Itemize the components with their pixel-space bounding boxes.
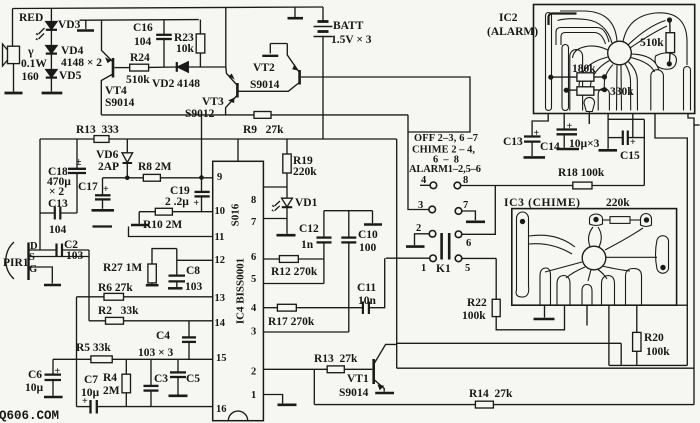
IC3 trace left to die <box>529 235 575 247</box>
resistor 330k in IC2 <box>564 87 607 95</box>
resistor R27 1M <box>146 249 177 286</box>
wire VT1 collector line A <box>397 342 622 344</box>
IC2 die <box>608 41 632 65</box>
svg-text:13: 13 <box>215 293 226 304</box>
capacitor C6 10u <box>44 359 63 397</box>
svg-text:104: 104 <box>49 224 67 236</box>
switch K1 contact 3 <box>429 206 436 213</box>
svg-text:C6: C6 <box>28 369 42 381</box>
IC2 trace down-left pair b <box>590 61 609 89</box>
IC2 left pad strip 2 <box>562 45 569 111</box>
IC2 tube pad bottom left <box>570 50 583 111</box>
IC3 CHIME module box <box>512 209 677 306</box>
resistor 180k in IC2 <box>548 73 607 81</box>
IC2 trace straight down <box>616 65 619 110</box>
svg-text:2: 2 <box>416 223 421 234</box>
resistor R14 27k <box>475 401 493 408</box>
svg-text:R2 33k: R2 33k <box>98 305 139 317</box>
svg-text:+: + <box>55 366 61 377</box>
capacitor C5 <box>169 359 188 396</box>
IC3 trace die to right pad <box>606 256 657 258</box>
battery BATT 1.5Vx3 <box>314 7 333 139</box>
wire R13b to VT1 base <box>344 368 372 370</box>
svg-text:BATT: BATT <box>333 20 364 32</box>
ground stub right of VD3 <box>77 20 94 30</box>
IC2 tube pad bottom right <box>651 70 664 111</box>
IC2 trace down-right a <box>625 64 631 111</box>
ground left of R10 <box>93 212 150 227</box>
wire C19 long vertical <box>201 115 203 212</box>
IC3 left pad strip <box>516 212 529 297</box>
svg-text:γ: γ <box>27 44 34 58</box>
wire IC3 open stub <box>586 305 588 325</box>
svg-text:R13 333: R13 333 <box>76 124 119 136</box>
wire left lower vertical <box>76 297 78 407</box>
svg-text:RED: RED <box>19 12 43 24</box>
wire pin12 row <box>177 259 213 261</box>
wire pin5 row <box>263 283 324 285</box>
svg-text:S9014: S9014 <box>339 387 369 399</box>
resistor R2 33k <box>106 317 124 324</box>
transistor VT2 S9014 <box>238 44 300 92</box>
wire R2 row pin14 <box>89 320 106 322</box>
IC3 bottom tubes <box>540 268 551 305</box>
resistor R8 2M <box>143 174 160 181</box>
wire contact1 row <box>386 257 430 259</box>
wire rail drop to VD2 row <box>225 7 227 67</box>
svg-text:C12: C12 <box>299 223 319 235</box>
svg-text:3: 3 <box>251 327 256 338</box>
wire pin3 row <box>263 331 348 333</box>
svg-text:VD3: VD3 <box>58 19 81 31</box>
svg-text:10µ: 10µ <box>25 382 44 394</box>
svg-text:103 × 3: 103 × 3 <box>138 347 174 359</box>
resistor R4 2M <box>122 359 131 406</box>
wire bottom output row R14 <box>314 404 475 406</box>
svg-text:R4: R4 <box>103 372 117 384</box>
svg-text:160: 160 <box>22 71 40 83</box>
svg-text:220k: 220k <box>293 166 317 178</box>
svg-text:100: 100 <box>359 242 377 254</box>
svg-text:+: + <box>103 184 109 195</box>
resistor R5 33k <box>91 356 112 363</box>
svg-text:VT2: VT2 <box>253 62 275 74</box>
svg-text:C16: C16 <box>133 22 153 34</box>
IC2 left pad strip 1 <box>546 13 552 111</box>
wire R9 row <box>101 114 254 116</box>
diode VD6 2AP <box>122 139 133 178</box>
wire PIR G row to ground <box>29 267 62 285</box>
svg-text:R17 270k: R17 270k <box>268 316 315 328</box>
ground right of bracket <box>364 211 382 225</box>
capacitor C18 470u x2 <box>68 139 86 213</box>
resistor R13b 27k <box>327 366 344 373</box>
IC3 top pad A <box>590 214 603 226</box>
IC2 trace top-left nest mid <box>556 28 609 46</box>
wire R17 row pin4 <box>263 307 277 309</box>
IC3 top pad B <box>641 214 652 227</box>
wire line B <box>397 367 694 369</box>
diode VD4 <box>46 46 57 70</box>
wire left sense column <box>39 139 41 250</box>
wire R10 row pin10 <box>139 211 155 213</box>
capacitor C10 100 <box>341 211 356 332</box>
wire C12 C10 top bracket <box>324 210 373 212</box>
svg-text:6: 6 <box>466 238 471 249</box>
svg-text:103: 103 <box>185 281 203 293</box>
IC2 trace down-left pair a <box>579 57 608 86</box>
svg-text:100k: 100k <box>646 346 670 358</box>
svg-text:C7: C7 <box>84 374 98 386</box>
wire bottom line C <box>609 364 687 366</box>
wire R13 row main horizontal <box>40 138 94 140</box>
wire R8 row pin9 <box>103 177 144 179</box>
svg-text:5: 5 <box>465 263 470 274</box>
ground stub on top rail <box>288 7 304 18</box>
svg-text:1n: 1n <box>301 239 314 251</box>
svg-text:12: 12 <box>215 255 226 266</box>
ground lead IC2 <box>599 114 618 151</box>
svg-text:+: + <box>194 198 200 209</box>
svg-text:VT4: VT4 <box>105 85 127 97</box>
svg-text:+: + <box>567 121 573 132</box>
capacitor C17 <box>92 178 115 211</box>
wire left speaker drop <box>12 9 14 47</box>
svg-text:R22: R22 <box>467 297 487 309</box>
svg-text:C13: C13 <box>503 136 523 148</box>
svg-text:C15: C15 <box>620 150 640 162</box>
capacitor C11 10n <box>363 258 385 314</box>
IC2 trace down mid-left <box>604 65 613 93</box>
svg-text:±: ± <box>76 157 82 168</box>
svg-text:S9014: S9014 <box>105 97 135 109</box>
svg-text:VD5: VD5 <box>59 70 82 82</box>
svg-text:4: 4 <box>251 303 257 314</box>
LED VD3 <box>35 22 57 46</box>
svg-text:8: 8 <box>463 175 468 186</box>
svg-text:(ALARM): (ALARM) <box>487 26 538 38</box>
transistor VT1 S9014 <box>374 344 397 393</box>
LED VD1 <box>271 198 295 235</box>
resistor R12 270k <box>279 256 298 263</box>
wire R12 row pin6 <box>263 258 279 260</box>
svg-text:0.1W: 0.1W <box>21 58 47 70</box>
svg-text:Q606.COM: Q606.COM <box>0 409 59 423</box>
svg-text:VD2: VD2 <box>152 78 175 90</box>
svg-text:S016: S016 <box>230 203 242 226</box>
wire IC2 lead to C13 <box>532 114 548 137</box>
svg-text:S9014: S9014 <box>250 79 280 91</box>
wire PIR D row <box>29 249 57 251</box>
IC2 top-left pad strip <box>549 14 577 26</box>
IC2 teardrop stub <box>588 112 590 125</box>
wire C2 column down <box>88 250 90 321</box>
svg-text:4: 4 <box>421 175 427 186</box>
wire C15 top rail <box>608 118 644 120</box>
svg-text:220k: 220k <box>606 197 630 209</box>
IC3 trace pads to die <box>589 227 593 247</box>
svg-text:10n: 10n <box>358 295 377 307</box>
svg-text:R8 2M: R8 2M <box>138 161 172 173</box>
svg-text:IC4 BISS0001: IC4 BISS0001 <box>235 258 247 324</box>
IC2 ALARM module box <box>534 5 695 114</box>
wire IC3 right edge link <box>677 304 688 306</box>
svg-text:VT3: VT3 <box>202 96 224 108</box>
svg-text:C17: C17 <box>78 181 98 193</box>
svg-text:C10: C10 <box>358 229 378 241</box>
wire contact8 R18 line <box>461 185 573 187</box>
svg-text:S9012: S9012 <box>185 108 215 120</box>
svg-text:C5: C5 <box>186 373 200 385</box>
wire IC3 lead to bottom line <box>608 305 610 365</box>
svg-text:D: D <box>30 241 38 252</box>
wire pin1 to ground <box>263 395 296 405</box>
wire R6 row pin13 <box>77 296 105 298</box>
wire C15 to R18 vertical <box>643 119 645 185</box>
capacitor C7 10u <box>91 400 97 414</box>
svg-text:8: 8 <box>251 195 256 206</box>
svg-text:ALARM1–2,5–6: ALARM1–2,5–6 <box>409 164 481 175</box>
IC2 right edge pad <box>684 67 691 111</box>
node R8-C19 junction <box>199 175 204 180</box>
svg-text:R12 270k: R12 270k <box>271 266 318 278</box>
capacitor C12 1n <box>317 211 332 284</box>
node R8-VD6 junction <box>125 176 130 181</box>
svg-text:K1: K1 <box>436 263 451 275</box>
svg-text:G: G <box>29 264 37 275</box>
resistor R18 100k <box>573 182 592 189</box>
wire R5 row pin15 <box>53 358 91 360</box>
wire pin2 branch to bottom <box>313 369 315 404</box>
IC2 trace left to strip2 <box>573 46 609 58</box>
svg-text:C14: C14 <box>540 141 560 153</box>
svg-text:R18 100k: R18 100k <box>558 167 605 179</box>
node IC3 pad dots <box>520 219 525 224</box>
svg-text:10: 10 <box>215 206 226 217</box>
op-amp IC4 BISS0001 body <box>213 139 264 421</box>
capacitor C8 103 <box>168 249 185 289</box>
wire LED chain drop <box>50 8 52 22</box>
IC2 trace down-right b <box>629 62 638 111</box>
IC2 trace top edge long <box>560 11 617 42</box>
svg-text:R5 33k: R5 33k <box>76 342 111 354</box>
resistor R13 333 <box>94 136 109 143</box>
svg-text:R14 27k: R14 27k <box>469 388 513 400</box>
svg-text:10k: 10k <box>176 43 195 55</box>
transistor VT3 S9012 <box>226 67 238 115</box>
svg-text:330k: 330k <box>610 86 634 98</box>
IC2 trace to 510k top <box>628 21 666 46</box>
IC3 right pad <box>656 236 669 274</box>
svg-text:VT1: VT1 <box>347 373 369 385</box>
capacitor C13b electrolytic <box>524 137 546 158</box>
svg-text:10µ×3: 10µ×3 <box>569 138 600 150</box>
svg-text:180k: 180k <box>572 63 596 75</box>
capacitor C2 103 <box>57 244 90 257</box>
resistor R17 270k <box>277 304 296 311</box>
svg-text:C11: C11 <box>357 282 376 294</box>
ground under LED chain <box>42 92 63 95</box>
wire VT2 base long line to switch block <box>301 77 470 132</box>
resistor R19 220k <box>283 139 291 198</box>
wire VD2 row <box>115 67 130 69</box>
capacitor C3 <box>144 359 159 406</box>
svg-text:4148: 4148 <box>177 78 200 90</box>
svg-text:3: 3 <box>418 200 423 211</box>
svg-text:+: + <box>82 396 88 407</box>
svg-text:R27 1M: R27 1M <box>103 262 142 274</box>
svg-text:C8: C8 <box>186 265 200 277</box>
svg-text:C3: C3 <box>154 373 168 385</box>
wire pin8 row <box>263 186 287 188</box>
svg-text:R9 27k: R9 27k <box>243 124 284 136</box>
wire IC2 open stub <box>588 114 590 125</box>
capacitor C13 104 <box>40 207 77 220</box>
capacitor C16 104 <box>156 20 172 67</box>
svg-text:9: 9 <box>217 172 222 183</box>
IC2 trace to tube right <box>631 58 655 73</box>
resistor R23 10k <box>196 20 205 67</box>
ground IC3 lead <box>534 305 555 319</box>
svg-text:IC3 (CHIME): IC3 (CHIME) <box>504 197 580 209</box>
resistor R22 100k <box>492 258 564 329</box>
svg-text:1: 1 <box>251 390 256 401</box>
svg-text:R20: R20 <box>644 332 664 344</box>
svg-text:510k: 510k <box>640 37 664 49</box>
svg-text:VD4: VD4 <box>61 45 84 57</box>
switch K1 contact 8 <box>454 182 461 189</box>
wire switch feed vertical K1 pole <box>396 139 398 368</box>
svg-text:103: 103 <box>66 250 84 262</box>
wire pin11 row <box>129 227 213 237</box>
svg-text:R24: R24 <box>130 52 150 64</box>
switch K1 contact 7 with ground <box>455 208 485 222</box>
diode VD2 4148 <box>177 62 189 72</box>
resistor R6 27k <box>104 293 124 300</box>
capacitor C14 10u <box>557 114 580 150</box>
capacitor C4 <box>182 321 196 360</box>
wire pin7 row <box>263 218 287 220</box>
svg-text:1: 1 <box>421 263 426 274</box>
svg-text:5: 5 <box>251 274 256 285</box>
wire C16 R23 top bracket <box>86 19 199 22</box>
IC3 traces die to tubes <box>566 267 585 278</box>
svg-text:510k: 510k <box>126 74 150 86</box>
svg-text:R6 27k: R6 27k <box>98 282 133 294</box>
resistor 510k in IC2 <box>666 17 675 66</box>
switch K1 contact 5 <box>455 255 462 262</box>
switch K1 actuator bars <box>442 233 450 260</box>
IC2 teardrop pad <box>584 97 595 111</box>
svg-text:S: S <box>29 252 35 263</box>
resistor R10 2M <box>155 208 172 215</box>
svg-text:OFF 2–3, 6 –7: OFF 2–3, 6 –7 <box>414 133 478 144</box>
IC3 die <box>582 246 606 270</box>
PIR1 sensor <box>6 242 29 280</box>
resistor R9 27k <box>254 112 271 119</box>
svg-text:2M: 2M <box>103 385 120 397</box>
svg-text:C13: C13 <box>48 198 68 210</box>
svg-text:14: 14 <box>215 318 226 329</box>
svg-text:PIR1: PIR1 <box>3 257 29 269</box>
resistor 220k in IC3 <box>603 217 641 224</box>
svg-text:1.5V × 3: 1.5V × 3 <box>331 34 372 46</box>
svg-text:R13 27k: R13 27k <box>314 353 358 365</box>
wire IC2 lead to right edge vertical <box>655 114 687 366</box>
svg-text:104: 104 <box>134 36 152 48</box>
switch K1 contact 1 <box>430 255 437 262</box>
resistor R24 510k <box>130 64 149 71</box>
svg-text:6: 6 <box>251 252 256 263</box>
svg-text:IC2: IC2 <box>499 12 518 24</box>
svg-text:+: + <box>534 128 540 139</box>
transistor VT4 S9014 <box>101 20 113 115</box>
svg-text:16: 16 <box>216 404 227 415</box>
wire contact6 to R18 line <box>462 186 496 235</box>
svg-text:15: 15 <box>216 353 227 364</box>
svg-text:R10 2M: R10 2M <box>143 219 182 231</box>
svg-text:VD6: VD6 <box>96 149 119 161</box>
svg-text:2 .2µ: 2 .2µ <box>165 196 189 208</box>
wire pin2 row <box>263 368 327 370</box>
switch K1 contact 2 with ground <box>406 231 436 247</box>
svg-text:2: 2 <box>251 367 256 378</box>
svg-text:11: 11 <box>215 232 225 243</box>
wire R9 to contact 3 vertical <box>408 115 429 210</box>
IC2 bottom-right pad hook <box>655 53 676 69</box>
svg-text:2AP: 2AP <box>98 161 119 173</box>
capacitor C19 2.2u <box>195 192 210 197</box>
svg-text:× 2: × 2 <box>49 186 64 198</box>
svg-text:7: 7 <box>463 200 468 211</box>
resistor R20 100k <box>633 305 641 365</box>
svg-text:+: + <box>630 137 636 148</box>
IC2 trace top-left nest outer <box>558 19 613 43</box>
IC2 trace right edge sweep <box>623 13 687 65</box>
svg-text:C4: C4 <box>156 330 170 342</box>
wire contact5 row to R22 <box>462 257 496 259</box>
svg-text:4148 × 2: 4148 × 2 <box>61 57 102 69</box>
wire PIR S row <box>29 256 90 258</box>
diode VD5 <box>46 70 57 92</box>
wire IC2 lead far right <box>688 114 694 405</box>
capacitor C15 <box>608 114 644 146</box>
wire top supply rail <box>13 7 324 9</box>
svg-text:100k: 100k <box>462 310 486 322</box>
IC2 tube pad bottom mid <box>598 88 609 110</box>
switch K1 contact 4 <box>420 182 437 189</box>
svg-text:VD1: VD1 <box>295 197 318 209</box>
speaker Y 0.1W 160 <box>3 44 23 93</box>
svg-text:7: 7 <box>251 217 256 228</box>
switch K1 contact 6 <box>455 231 462 238</box>
wire bottom rail <box>77 406 91 408</box>
IC2 trace top-left nest inner <box>561 33 606 46</box>
